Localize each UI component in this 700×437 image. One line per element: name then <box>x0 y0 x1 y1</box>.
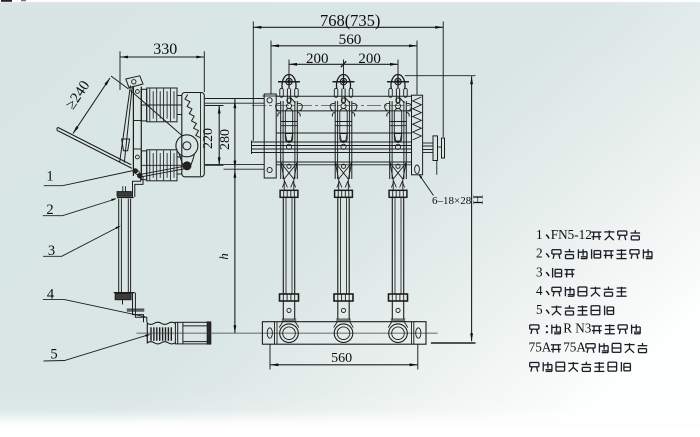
pole 1 base insulator ring <box>280 324 299 343</box>
svg-text:FN5-12: FN5-12 <box>551 227 592 242</box>
svg-text:280: 280 <box>218 129 233 150</box>
lower fuse clip bracket item4 <box>114 293 135 305</box>
pole 3 lower contact <box>390 162 407 181</box>
pole 2 fuse tube <box>338 197 349 294</box>
switch blade arm <box>57 127 132 168</box>
switch mounting frame <box>182 93 205 177</box>
pole 1 lower tube clamp <box>280 294 299 301</box>
pole 2 lower contact <box>335 162 352 181</box>
svg-text:H: H <box>470 195 485 205</box>
svg-text:h: h <box>216 253 231 260</box>
base slot left <box>267 328 272 338</box>
dimension H right side <box>405 76 486 343</box>
svg-text:5: 5 <box>536 302 543 317</box>
svg-text:200: 200 <box>358 51 381 67</box>
upper connection bar <box>205 99 264 104</box>
dimension 330 <box>120 41 204 58</box>
svg-text:200: 200 <box>306 51 329 67</box>
svg-text:560: 560 <box>339 31 362 48</box>
fuse tube item3 <box>119 199 131 293</box>
switch top contact plate <box>126 76 143 88</box>
note line 2: 75A and above installation <box>529 340 648 355</box>
svg-text:1: 1 <box>46 169 53 185</box>
pole 1 upper contact wings <box>276 103 303 116</box>
svg-text:2: 2 <box>536 246 543 261</box>
pole 3 lower tube clamp <box>389 294 408 301</box>
label 1 leader <box>44 169 134 186</box>
extension line x204 <box>203 51 205 92</box>
switch insulator channel <box>133 87 141 176</box>
svg-text:4: 4 <box>536 283 543 298</box>
switch link bars <box>120 86 133 163</box>
left support plate <box>263 94 278 178</box>
dimension 200 right <box>344 51 399 67</box>
pole 2 contact fingers <box>337 180 350 190</box>
dimension 560 bottom <box>270 345 418 370</box>
switch pivot pins <box>133 169 142 178</box>
mid rail y133 <box>276 132 411 134</box>
svg-text:330: 330 <box>153 41 177 58</box>
mounting base bar <box>262 322 426 345</box>
pole 2 upper contact wings <box>330 103 357 116</box>
label 6-18x28 slot callout <box>418 173 471 207</box>
pole 1 contact fingers <box>282 180 295 190</box>
pole 3 contact fingers <box>391 180 404 190</box>
operating shaft tube <box>252 141 412 155</box>
extension lines pole centers <box>289 60 398 77</box>
svg-text:4: 4 <box>47 287 55 303</box>
pole 2 lower bracket <box>334 301 354 328</box>
label 5 leader <box>44 334 151 362</box>
label 2 leader <box>43 198 117 218</box>
note line 3: dimensions in brackets <box>530 362 631 372</box>
pole 3 upper tube clamp <box>389 190 407 197</box>
horizontal center line y333 <box>137 332 438 334</box>
pole 2 carrier rails <box>335 101 352 179</box>
svg-text:3: 3 <box>536 264 543 279</box>
step wire from lower insulator <box>133 176 144 197</box>
pole 1 eye ring <box>278 74 300 89</box>
pole 2 eye ring <box>333 74 355 89</box>
right spring plate <box>412 95 423 175</box>
fuse base bushing cylinder <box>175 322 210 344</box>
dimension 560 top <box>271 31 417 48</box>
svg-text:6–18×28: 6–18×28 <box>432 195 472 207</box>
legend line 4: 4, fuse terminal plate <box>536 283 627 298</box>
pole 2 lower tube clamp <box>334 294 353 301</box>
pole 1 clevis <box>280 88 298 103</box>
switch crank arm <box>131 91 198 170</box>
pole 3 base insulator ring <box>389 324 408 343</box>
terminal plate tick <box>127 309 145 311</box>
pole 1 fuse tube <box>283 197 294 294</box>
center phantom line y105 <box>252 104 412 106</box>
extension line x417 <box>416 41 418 95</box>
pole 3 carrier rails <box>390 101 407 179</box>
pole 3 fuse tube <box>392 197 403 294</box>
pole 1 carrier rails <box>281 101 298 179</box>
legend line 2: 2, support fuse terminal plate <box>536 246 652 261</box>
legend line 1: 1, FN5-12 load switch <box>536 227 640 242</box>
operating shaft and handle knob <box>423 136 445 175</box>
pole 1 upper tube clamp <box>280 190 298 197</box>
extension line x271 <box>270 41 272 94</box>
drive link to blade pivot <box>141 166 184 177</box>
legend line 3: 3, fuse tube <box>536 264 575 279</box>
pole 3 lower bracket <box>388 301 408 328</box>
Z step wire to bushing <box>133 293 147 323</box>
top-left scan mark <box>1 0 26 2</box>
svg-text:560: 560 <box>331 351 352 366</box>
pole 2 carrier slot <box>340 103 347 149</box>
pole 2 upper tube clamp <box>335 190 353 197</box>
switch upper insulator <box>141 88 182 122</box>
legend line 5: 5, fuse base <box>536 302 614 317</box>
dimension 768(735) top <box>253 11 443 30</box>
dimension 200 left <box>289 51 346 67</box>
svg-text:220: 220 <box>201 128 216 149</box>
pole 1 carrier slot <box>285 103 292 149</box>
svg-text:5: 5 <box>50 347 57 363</box>
extension line left x253 <box>252 22 254 141</box>
dimension >=240 diagonal <box>63 78 110 134</box>
svg-text:1: 1 <box>536 227 543 242</box>
pole 3 clevis <box>389 88 407 103</box>
extension line right x443 <box>442 22 444 138</box>
label 3 leader <box>43 226 121 259</box>
switch lower insulator <box>141 150 182 181</box>
pole 3 upper contact wings <box>385 103 412 116</box>
pole 1 lower contact <box>281 162 298 181</box>
pole 2 base insulator ring <box>334 324 353 343</box>
svg-text:R N3: R N3 <box>563 321 592 336</box>
pole 3 carrier slot <box>394 103 401 149</box>
dimension 220 vertical <box>201 106 224 166</box>
upper fuse clip bracket item2 <box>117 186 134 197</box>
svg-text:75A: 75A <box>529 340 552 355</box>
dimension 280 and h vertical line <box>216 98 264 333</box>
extension line x120 <box>119 51 121 90</box>
fuse base bushing item5 ribbed <box>147 322 175 344</box>
upper channel rails <box>276 96 411 111</box>
extension segment to blade tip <box>111 76 129 89</box>
switch opening spring <box>185 94 201 137</box>
note line 1: with RN3 fuse current <box>530 321 641 336</box>
svg-text:75A: 75A <box>563 340 586 355</box>
pole 1 lower bracket <box>279 301 299 328</box>
pole 3 eye ring <box>387 74 409 89</box>
base slot right <box>416 328 421 338</box>
lower connection line <box>205 163 264 165</box>
pole 2 clevis <box>334 88 352 103</box>
label 4 leader <box>43 287 145 317</box>
lower rail pair <box>276 162 411 165</box>
svg-text:768(735): 768(735) <box>320 11 381 30</box>
